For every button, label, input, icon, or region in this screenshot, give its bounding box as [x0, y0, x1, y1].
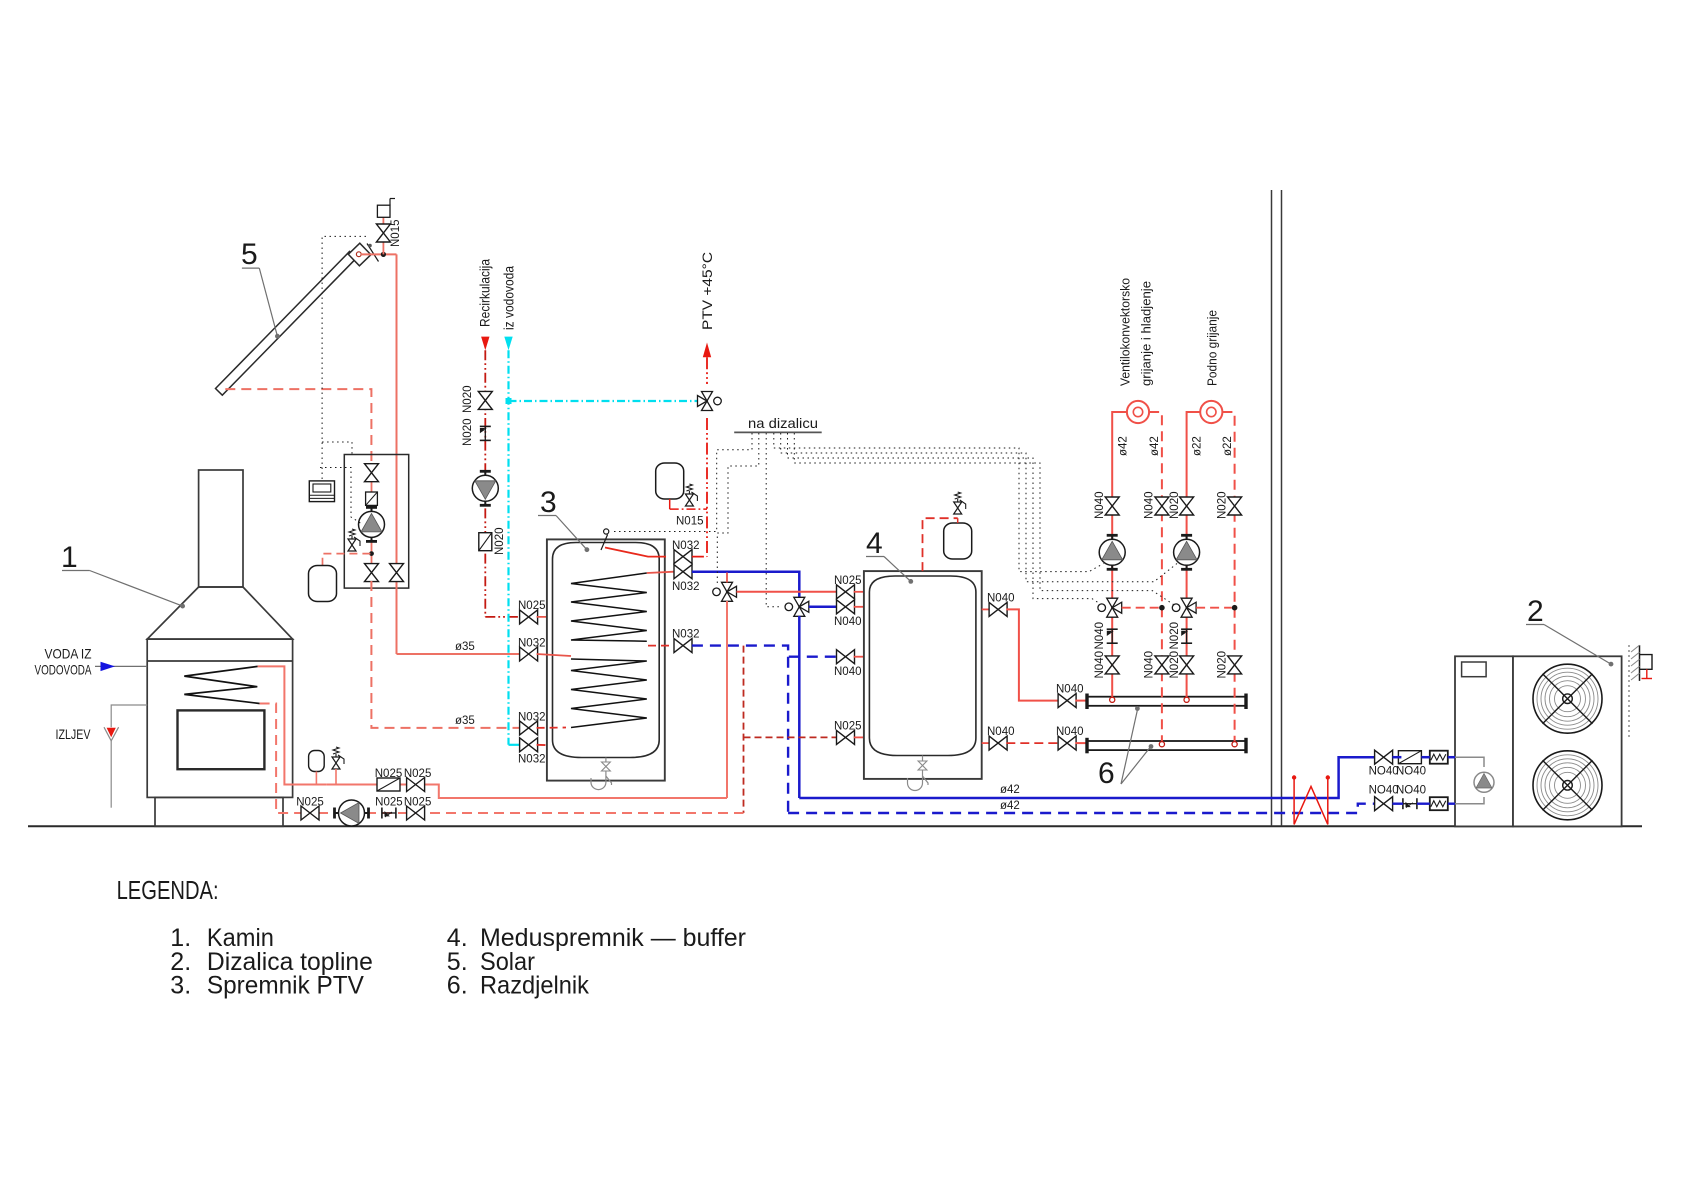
solar collector panel (5) [216, 252, 357, 396]
valve N025 (return) [301, 806, 319, 820]
valve N040 (c1 return top) [1155, 497, 1169, 515]
solar pump station box [344, 455, 408, 589]
iz vodovoda arrow [504, 337, 512, 351]
wire right column in box [396, 566, 398, 654]
PTV arrow [703, 343, 711, 358]
recirc line (dash-dot) [484, 350, 486, 617]
wire solar supply riser [396, 254, 398, 566]
svg-text:N040: N040 [1094, 492, 1106, 520]
svg-text:N020: N020 [1169, 651, 1181, 679]
svg-text:N020: N020 [494, 528, 506, 556]
dotted wires from na dizalicu bus [611, 433, 752, 532]
bottom blue supply line [799, 757, 1375, 798]
tank4 drain [922, 756, 924, 762]
svg-text:Spremnik PTV: Spremnik PTV [207, 972, 364, 1000]
svg-text:LEGENDA:: LEGENDA: [117, 875, 219, 905]
fireplace supply line with filter and valve [326, 785, 727, 799]
circuit 2 supply riser [1187, 412, 1201, 697]
svg-text:ø42: ø42 [1118, 436, 1130, 456]
svg-text:N040: N040 [1144, 651, 1156, 679]
valve N032 (solar supply, tank left) [520, 647, 538, 661]
3-way valve (circuit 2) [1172, 598, 1196, 617]
solar collector head [348, 243, 371, 266]
fireplace return line (dashed) [318, 812, 744, 814]
valve N040 (tank4 left) [837, 600, 855, 614]
3-way valve (fireplace/buffer supply) [713, 582, 737, 601]
svg-text:N040: N040 [987, 593, 1015, 605]
svg-text:N025: N025 [404, 768, 432, 780]
valve N040 (manifold top feed) [1058, 694, 1076, 708]
svg-text:N025: N025 [834, 575, 862, 587]
svg-text:Podno grijanje: Podno grijanje [1205, 310, 1220, 386]
safety valve (buffer) [954, 492, 966, 514]
valve N040 (tank4 right) [989, 602, 1007, 616]
safety valve N015 [685, 484, 697, 506]
valve N040 (manifold bottom feed) [1058, 736, 1076, 750]
svg-text:N032: N032 [672, 540, 700, 552]
svg-text:N020: N020 [1169, 622, 1181, 650]
solar sensor tick [367, 244, 379, 262]
supply to top manifold [1006, 609, 1059, 700]
svg-text:N032: N032 [672, 581, 700, 593]
blue inlet arrow [101, 662, 116, 671]
svg-text:N020: N020 [1169, 492, 1181, 520]
recirc arrow [481, 337, 489, 351]
svg-text:PTV +45°C: PTV +45°C [700, 252, 715, 330]
svg-text:6: 6 [1098, 757, 1115, 790]
svg-text:N040: N040 [987, 726, 1015, 738]
valve N040 (tank4 right lower) [989, 736, 1007, 750]
PTV riser (dash-dot red) [706, 357, 708, 384]
dotted solar sensor wire [322, 236, 366, 481]
tank 4 inner vessel [869, 576, 976, 756]
valve N025 (supply) [407, 778, 425, 792]
internal pipe (grey) [1455, 757, 1484, 767]
tank 4 (buffer) outer jacket [864, 571, 982, 779]
svg-text:Recirkulacija: Recirkulacija [478, 259, 493, 327]
filter (box) [366, 492, 378, 505]
svg-text:N040: N040 [1094, 622, 1106, 650]
svg-text:N040: N040 [834, 666, 862, 678]
circuit 1 supply riser [1112, 412, 1127, 697]
svg-text:N015: N015 [390, 220, 402, 248]
node box junction [369, 551, 374, 556]
svg-text:N032: N032 [518, 712, 546, 724]
svg-text:Ventilokonvektorsko: Ventilokonvektorsko [1118, 278, 1133, 386]
svg-text:ø42: ø42 [1000, 800, 1020, 812]
tank3 coil-top stub [647, 572, 674, 573]
manifold top bar (razdjelnik) [1087, 697, 1246, 706]
wire solar supply to tank [397, 653, 521, 655]
pump (heat pump internal) [1474, 772, 1494, 792]
dotted wire (outdoor sensor) [1628, 645, 1630, 740]
heat pump display box [1462, 662, 1487, 677]
blue supply to 3way [692, 572, 799, 598]
3-way valve (circuit 1) [1098, 598, 1122, 617]
svg-text:N025: N025 [834, 721, 862, 733]
dash-dot to PTV riser [692, 556, 707, 558]
tank4 right bottom port [982, 742, 990, 744]
svg-text:3: 3 [540, 486, 557, 519]
svg-text:NO40: NO40 [1396, 785, 1426, 797]
svg-text:N025: N025 [518, 600, 546, 612]
check valve N020 (recirc) [480, 426, 491, 440]
pump (circuit 1) [1099, 535, 1125, 569]
solar return dashed from panel foot [225, 389, 371, 463]
svg-text:3.: 3. [170, 972, 191, 1000]
red to tank4 top port [737, 591, 838, 593]
valve N040 (c1 supply bottom) [1105, 656, 1119, 674]
valve N025 (tank4 bottom-left) [837, 730, 855, 744]
circuit 1 consumer head [1127, 401, 1149, 423]
izljev drain pipe [111, 705, 147, 727]
valve N020 (c2 return top) [1228, 497, 1242, 515]
fireplace water coil [184, 666, 259, 703]
svg-text:ø35: ø35 [455, 715, 475, 727]
valve N020 (c2 return bottom) [1228, 656, 1242, 674]
dark red dashed to tank4 bottom port [744, 736, 838, 738]
flex connector (HP return) [1430, 797, 1448, 810]
svg-text:N040: N040 [1056, 726, 1084, 738]
blue to tank4 second port [809, 606, 838, 609]
check valve N040 (c1) [1107, 629, 1118, 643]
valve N032 (mid port) [674, 639, 692, 653]
svg-text:N020: N020 [1217, 492, 1229, 520]
svg-text:N025: N025 [296, 797, 324, 809]
flex connector (HP supply) [1430, 751, 1448, 764]
svg-text:N032: N032 [672, 629, 700, 641]
tank3 mid port stub (dashed red) [648, 645, 674, 647]
expansion vessel connection [323, 554, 372, 566]
pump (solar) [359, 507, 385, 541]
izljev funnel [104, 727, 119, 741]
heat pump outline [1455, 656, 1513, 826]
solar supply pipe [361, 253, 397, 255]
bottom blue return line (dashed) [788, 804, 1375, 813]
valve N015 (solar vent) [376, 224, 390, 242]
wire solar return to tank (dashed) [371, 581, 520, 728]
red down to bottom line [726, 601, 728, 798]
cold inlet curve into tank [537, 745, 596, 754]
svg-text:N025: N025 [404, 797, 432, 809]
pump (recirc, down) [472, 471, 498, 505]
dotted wire (controller to box) [322, 442, 352, 455]
circuit 2 return riser (dashed) [1222, 412, 1234, 741]
manifold connection dots [1110, 697, 1115, 702]
svg-text:VODOVODA: VODOVODA [35, 662, 92, 678]
expansion loop (red zigzag at wall) [1294, 779, 1328, 824]
svg-text:Razdjelnik: Razdjelnik [480, 972, 589, 1000]
PTV mixing valve (3-way, circle right) [698, 392, 722, 411]
svg-text:5: 5 [241, 238, 258, 271]
valve N025 (tank4 top-left) [837, 585, 855, 599]
svg-text:N015: N015 [676, 516, 704, 528]
svg-text:ø35: ø35 [455, 641, 475, 653]
pump (circuit 2) [1174, 535, 1200, 569]
wall (double line) [1271, 190, 1273, 826]
svg-text:N040: N040 [1144, 492, 1156, 520]
svg-text:1: 1 [61, 541, 78, 574]
svg-text:N025: N025 [375, 768, 403, 780]
fireplace coil supply pipe [258, 666, 327, 784]
tank3 drain [605, 758, 607, 763]
blue down from 3way to bottom [798, 616, 801, 798]
cold water inlet line [95, 665, 147, 667]
svg-text:NO40: NO40 [1369, 785, 1399, 797]
check valve N040 (HP) [1403, 798, 1417, 809]
svg-text:N040: N040 [1056, 684, 1084, 696]
filter N020 (recirc) [479, 533, 492, 551]
cyan branch to mixing valve [509, 400, 699, 402]
blue dashed down to bottom line [787, 657, 789, 813]
circuit 1 return riser (dashed) [1149, 412, 1162, 741]
blue dashed return from tank3 [692, 646, 837, 657]
manifold bottom bar [1087, 741, 1246, 750]
valve N020 (c2 supply top) [1180, 497, 1194, 515]
valve N020 (c2 supply bottom) [1180, 656, 1194, 674]
valve N040 (c1 return bottom) [1155, 656, 1169, 674]
svg-text:N040: N040 [834, 616, 862, 628]
fireplace coil return pipe (dashed) [260, 704, 302, 814]
circuit 2 consumer head [1200, 401, 1222, 423]
valve (box bottom left) [365, 564, 379, 582]
3-way valve (heat pump supply, blue) [785, 597, 809, 616]
svg-text:N020: N020 [462, 419, 474, 447]
valve N040 (tank4 mid-left) [837, 650, 855, 664]
svg-text:ø42: ø42 [1149, 436, 1161, 456]
tank3 port diagonal (top) [605, 548, 666, 557]
valve N040 (HP supply) [1375, 750, 1393, 764]
svg-text:VODA IZ: VODA IZ [45, 646, 92, 662]
valve N032 (PTV out) [674, 550, 692, 564]
svg-text:N040: N040 [1094, 651, 1106, 679]
tank3 upper coil [571, 573, 647, 641]
svg-text:6.: 6. [447, 972, 468, 1000]
cyan to tank bottom [509, 744, 521, 746]
svg-text:4: 4 [866, 527, 883, 560]
svg-text:2: 2 [1527, 595, 1544, 628]
controller box [309, 481, 334, 502]
air vent box [377, 205, 390, 217]
expansion vessel (solar) [309, 566, 337, 602]
expansion vessel (buffer) [944, 523, 972, 559]
svg-text:N032: N032 [518, 754, 546, 766]
valve (box top) [365, 464, 379, 482]
fan 1 [1533, 664, 1602, 733]
valve (box bottom right) [390, 564, 404, 582]
cold water line (cyan) [507, 350, 509, 745]
svg-text:NO40: NO40 [1369, 766, 1399, 778]
node solar junction [381, 252, 386, 257]
air vent line [382, 242, 384, 254]
pump (fireplace, left) [335, 800, 369, 826]
wire left column in box [371, 463, 373, 564]
filter N025 [377, 778, 400, 791]
valve N032 (cold inlet) [520, 738, 538, 752]
dotted controller-pump wire [320, 468, 362, 525]
fireplace firebox window [178, 710, 265, 769]
filter N040 (HP) [1398, 751, 1421, 764]
svg-text:NO40: NO40 [1396, 766, 1426, 778]
solar head connection circle [356, 252, 361, 257]
safety valve (solar box) [348, 529, 360, 551]
svg-text:N020: N020 [462, 386, 474, 414]
safety valve (fireplace) [332, 747, 344, 769]
tank3 lower coil [571, 659, 647, 728]
stub up from 3way [726, 573, 728, 583]
fan 2 [1533, 751, 1602, 820]
svg-text:iz vodovoda: iz vodovoda [502, 266, 517, 330]
expansion vessel (fireplace) [309, 751, 325, 772]
svg-text:na dizalicu: na dizalicu [748, 415, 818, 431]
svg-text:ø22: ø22 [1222, 436, 1234, 456]
valve N040 (HP return) [1375, 797, 1393, 811]
svg-text:N032: N032 [518, 638, 546, 650]
svg-text:N020: N020 [1217, 651, 1229, 679]
svg-text:grijanje i hladjenje: grijanje i hladjenje [1139, 281, 1154, 386]
expansion vessel (PTV safety group) [656, 463, 684, 499]
tank 3 (Spremnik PTV) outer jacket [547, 539, 665, 780]
svg-text:ø22: ø22 [1192, 436, 1204, 456]
dark red dashed vertical (fireplace return riser) [743, 646, 745, 813]
tank4 safety dashed pipe [923, 518, 958, 571]
valve N040 (c1 supply top) [1105, 497, 1119, 515]
dashed to bottom manifold [1006, 742, 1059, 744]
valve N020 (recirc) [478, 391, 492, 409]
outdoor sensor wall bracket [1639, 645, 1641, 681]
svg-text:IZLJEV: IZLJEV [56, 726, 92, 742]
valve N032 (solar return, tank left) [520, 721, 538, 735]
valve N025 (recirc-tank) [520, 610, 538, 624]
izljev red arrow [107, 728, 116, 737]
check valve N020 (c2) [1181, 629, 1192, 643]
tank4 right top port [982, 608, 990, 610]
check valve N025 [382, 808, 396, 819]
valve N025 (return 2) [407, 806, 425, 820]
fireplace (kamin) body [147, 470, 292, 826]
tank3 sensor [601, 535, 608, 551]
svg-text:N025: N025 [375, 797, 403, 809]
ground line [28, 825, 1642, 827]
svg-text:ø42: ø42 [1000, 784, 1020, 796]
valve N032 (coil top / HP supply) [674, 565, 692, 579]
tank 3 inner vessel [553, 543, 660, 758]
recirc to tank horizontal [485, 616, 520, 618]
